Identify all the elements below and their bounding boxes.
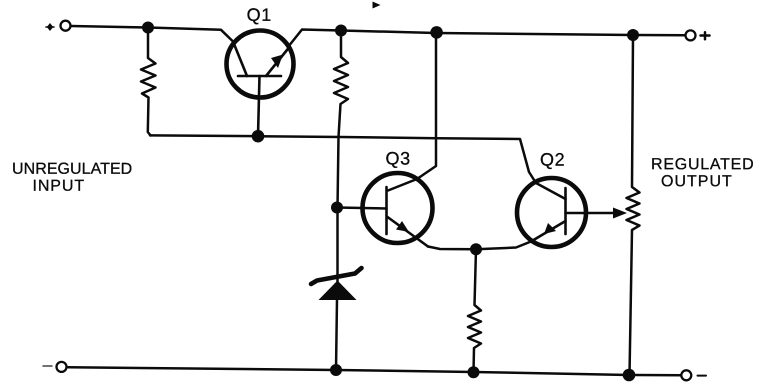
svg-text:REGULATED: REGULATED: [651, 156, 754, 173]
svg-text:Q2: Q2: [540, 150, 565, 170]
svg-text:Q1: Q1: [247, 5, 272, 25]
svg-text:Q3: Q3: [386, 149, 411, 169]
svg-text:INPUT: INPUT: [33, 178, 86, 195]
svg-text:OUTPUT: OUTPUT: [661, 173, 733, 190]
svg-text:UNREGULATED: UNREGULATED: [12, 161, 132, 178]
